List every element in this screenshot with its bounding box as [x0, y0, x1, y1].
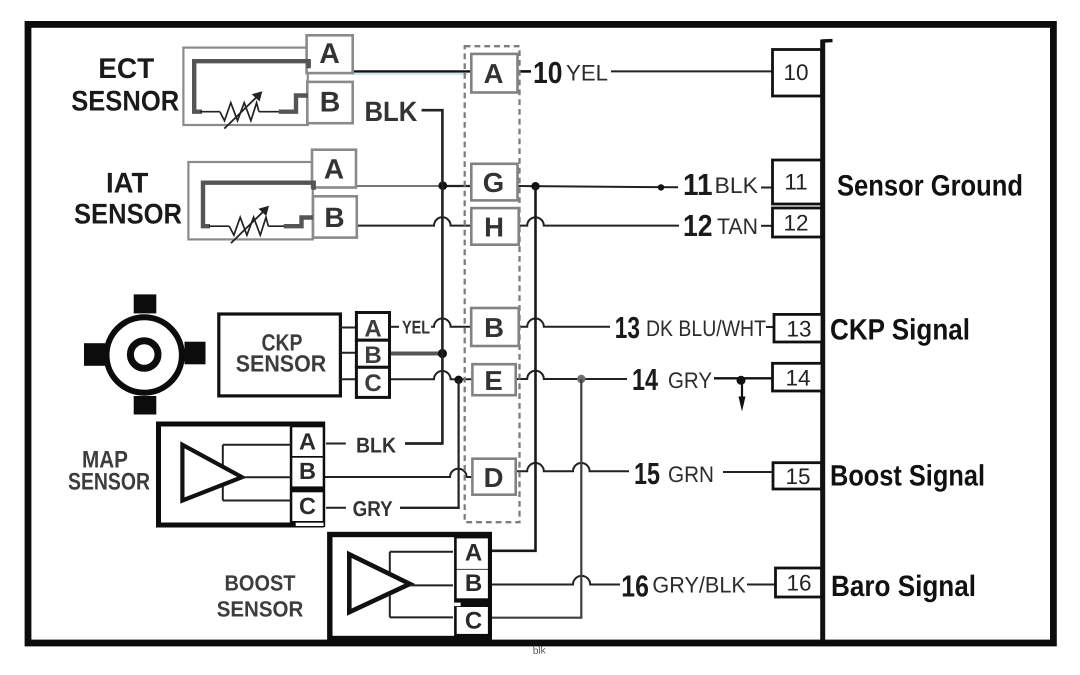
- svg-text:A: A: [324, 154, 344, 185]
- svg-text:CKP Signal: CKP Signal: [830, 314, 970, 347]
- svg-text:SENSOR: SENSOR: [217, 597, 304, 622]
- svg-text:GRY: GRY: [353, 497, 393, 521]
- svg-text:12: 12: [683, 209, 713, 243]
- svg-text:Boost Signal: Boost Signal: [830, 460, 985, 493]
- svg-text:Sensor Ground: Sensor Ground: [837, 170, 1023, 203]
- svg-text:SESNOR: SESNOR: [71, 86, 179, 118]
- svg-text:A: A: [319, 38, 340, 70]
- svg-text:Baro Signal: Baro Signal: [831, 570, 976, 603]
- svg-text:GRN: GRN: [668, 462, 714, 487]
- svg-text:IAT: IAT: [106, 168, 149, 200]
- svg-text:D: D: [484, 462, 504, 493]
- svg-text:11: 11: [784, 170, 807, 195]
- svg-text:BOOST: BOOST: [225, 571, 297, 596]
- svg-text:11: 11: [683, 168, 713, 202]
- svg-text:ECT: ECT: [98, 53, 155, 85]
- svg-text:A: A: [484, 58, 504, 89]
- svg-text:C: C: [465, 608, 482, 635]
- svg-text:YEL: YEL: [566, 61, 608, 86]
- svg-text:B: B: [364, 342, 381, 369]
- svg-text:GRY: GRY: [668, 368, 712, 393]
- svg-text:G: G: [483, 167, 504, 198]
- svg-text:13: 13: [615, 311, 640, 345]
- svg-text:SENSOR: SENSOR: [68, 469, 150, 496]
- svg-text:H: H: [484, 212, 504, 243]
- svg-text:10: 10: [533, 56, 563, 90]
- svg-text:A: A: [299, 429, 316, 455]
- svg-text:15: 15: [634, 457, 660, 491]
- svg-text:16: 16: [621, 570, 649, 604]
- svg-text:blk: blk: [533, 645, 547, 657]
- svg-text:E: E: [484, 365, 502, 396]
- svg-text:BLK: BLK: [356, 433, 396, 457]
- svg-text:A: A: [364, 316, 381, 343]
- svg-text:A: A: [465, 540, 482, 567]
- svg-text:10: 10: [783, 60, 808, 85]
- svg-text:C: C: [299, 493, 316, 519]
- svg-text:BLK: BLK: [365, 96, 418, 127]
- svg-text:DK BLU/WHT: DK BLU/WHT: [646, 316, 766, 341]
- svg-text:16: 16: [786, 571, 811, 596]
- svg-text:SENSOR: SENSOR: [236, 350, 327, 376]
- svg-text:GRY/BLK: GRY/BLK: [652, 573, 745, 598]
- svg-text:SENSOR: SENSOR: [74, 199, 182, 231]
- svg-text:B: B: [299, 458, 316, 484]
- svg-text:TAN: TAN: [717, 214, 758, 239]
- svg-text:B: B: [320, 87, 341, 119]
- svg-text:B: B: [465, 570, 482, 597]
- svg-text:15: 15: [785, 464, 810, 489]
- svg-text:BLK: BLK: [715, 173, 759, 198]
- svg-text:B: B: [484, 312, 504, 343]
- svg-text:14: 14: [785, 365, 810, 390]
- svg-text:B: B: [324, 202, 344, 233]
- svg-text:C: C: [364, 370, 381, 397]
- svg-text:YEL: YEL: [402, 317, 430, 338]
- svg-text:13: 13: [786, 316, 811, 341]
- svg-text:12: 12: [783, 211, 808, 236]
- svg-text:14: 14: [632, 363, 658, 397]
